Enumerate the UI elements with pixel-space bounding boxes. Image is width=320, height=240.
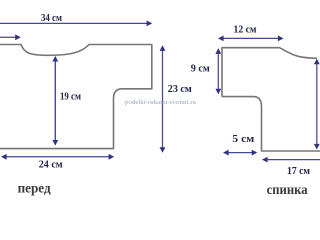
front piece outline <box>0 45 152 149</box>
svg-text:17 см: 17 см <box>287 166 310 177</box>
svg-text:24 см: 24 см <box>39 159 63 170</box>
dimension arrow 17 см <box>262 157 320 163</box>
svg-text:19 см: 19 см <box>60 92 81 103</box>
svg-text:5 см: 5 см <box>232 134 254 145</box>
dimension arrow 9 см <box>215 48 221 94</box>
small cut-off arrow <box>0 34 21 40</box>
svg-text:9 см: 9 см <box>191 63 210 74</box>
dimension arrow 12 см <box>218 36 284 42</box>
svg-text:спинка: спинка <box>267 183 308 198</box>
svg-text:23 см: 23 см <box>168 84 192 95</box>
dimension arrow 24 см <box>1 154 114 160</box>
back piece lower outline <box>222 97 320 151</box>
svg-text:12 см: 12 см <box>234 25 257 36</box>
svg-text:podelki-rukami-svoimi.ru: podelki-rukami-svoimi.ru <box>125 100 196 106</box>
svg-text:перед: перед <box>18 181 51 196</box>
back piece outline <box>222 48 317 97</box>
dimension arrow 23 см <box>160 45 166 153</box>
dimension arrow 19 см <box>52 56 58 146</box>
svg-text:34 см: 34 см <box>41 13 62 24</box>
dimension arrow 34 см <box>0 21 152 27</box>
right vertical dimension arrow <box>314 59 320 150</box>
dimension arrow 5 см <box>223 150 257 156</box>
